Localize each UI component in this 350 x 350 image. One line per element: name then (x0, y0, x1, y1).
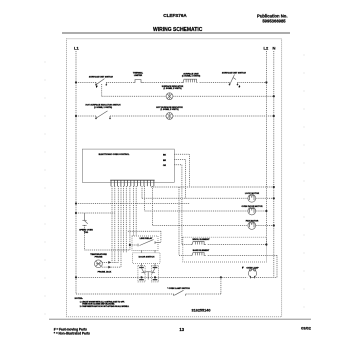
svg-text:(1 SOME, 2 UNITS): (1 SOME, 2 UNITS) (182, 76, 201, 78)
svg-text:* = Non-Illustrated Parts: * = Non-Illustrated Parts (54, 331, 90, 335)
svg-text:SURFACE UNIT SWITCH: SURFACE UNIT SWITCH (222, 71, 247, 74)
svg-text:WIRING SCHEMATIC: WIRING SCHEMATIC (153, 27, 203, 33)
svg-text:ELECTRONIC OVEN CONTROL: ELECTRONIC OVEN CONTROL (99, 154, 131, 156)
svg-text:BAKE ELEMENT: BAKE ELEMENT (193, 249, 210, 252)
svg-text:(1 SOME, 2 UNITS): (1 SOME, 2 UNITS) (163, 88, 181, 90)
svg-text:OVEN DOOR CLOSED AND UNLOCKED.: OVEN DOOR CLOSED AND UNLOCKED. (82, 302, 115, 305)
svg-text:316255140: 316255140 (191, 309, 210, 313)
svg-text:OVEN LAMP: OVEN LAMP (246, 266, 259, 269)
svg-text:PROBE: PROBE (95, 257, 103, 259)
svg-text:L2: L2 (264, 46, 269, 51)
svg-text:BROIL ELEMENT: BROIL ELEMENT (193, 239, 211, 241)
svg-text:* OVEN LAMP SWITCH: * OVEN LAMP SWITCH (167, 287, 190, 290)
svg-text:13: 13 (179, 327, 184, 332)
svg-text:(1 SOME, 2 UNITS): (1 SOME, 2 UNITS) (160, 109, 178, 111)
svg-text:BK: BK (163, 155, 167, 157)
svg-text:TEMPERATURE: TEMPERATURE (90, 253, 107, 256)
svg-text:TOD: TOD (84, 232, 89, 234)
svg-text:CLEFS76A: CLEFS76A (163, 13, 187, 18)
svg-text:03/02: 03/02 (301, 325, 312, 330)
svg-text:LIMITER: LIMITER (134, 75, 143, 77)
svg-text:OR: OR (163, 165, 167, 167)
svg-text:PROBE JACK: PROBE JACK (98, 270, 112, 273)
svg-text:BR: BR (163, 160, 167, 162)
svg-text:(1 SOME, 2 UNITS): (1 SOME, 2 UNITS) (94, 107, 112, 109)
svg-text:NOTES:: NOTES: (75, 298, 84, 300)
svg-text:L1: L1 (74, 46, 79, 51)
svg-text:LINE RELAY: LINE RELAY (140, 237, 153, 240)
svg-text:N: N (273, 46, 276, 51)
svg-text:DOOR SWITCH: DOOR SWITCH (139, 257, 155, 259)
svg-text:2. COMPONENTS MAY IS DO NOT: 2. COMPONENTS MAY IS DO NOT APPEAR ON AL… (80, 305, 130, 308)
svg-text:SURFACE UNIT SWITCH: SURFACE UNIT SWITCH (89, 75, 114, 78)
svg-text:5995366985: 5995366985 (262, 19, 286, 24)
